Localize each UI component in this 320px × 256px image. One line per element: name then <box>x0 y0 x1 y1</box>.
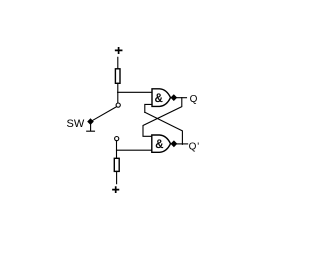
svg-text:&: & <box>155 93 163 105</box>
svg-text:SW: SW <box>67 118 85 130</box>
svg-text:&: & <box>156 139 164 151</box>
svg-text:Q': Q' <box>189 142 201 153</box>
svg-text:Q: Q <box>190 94 198 105</box>
